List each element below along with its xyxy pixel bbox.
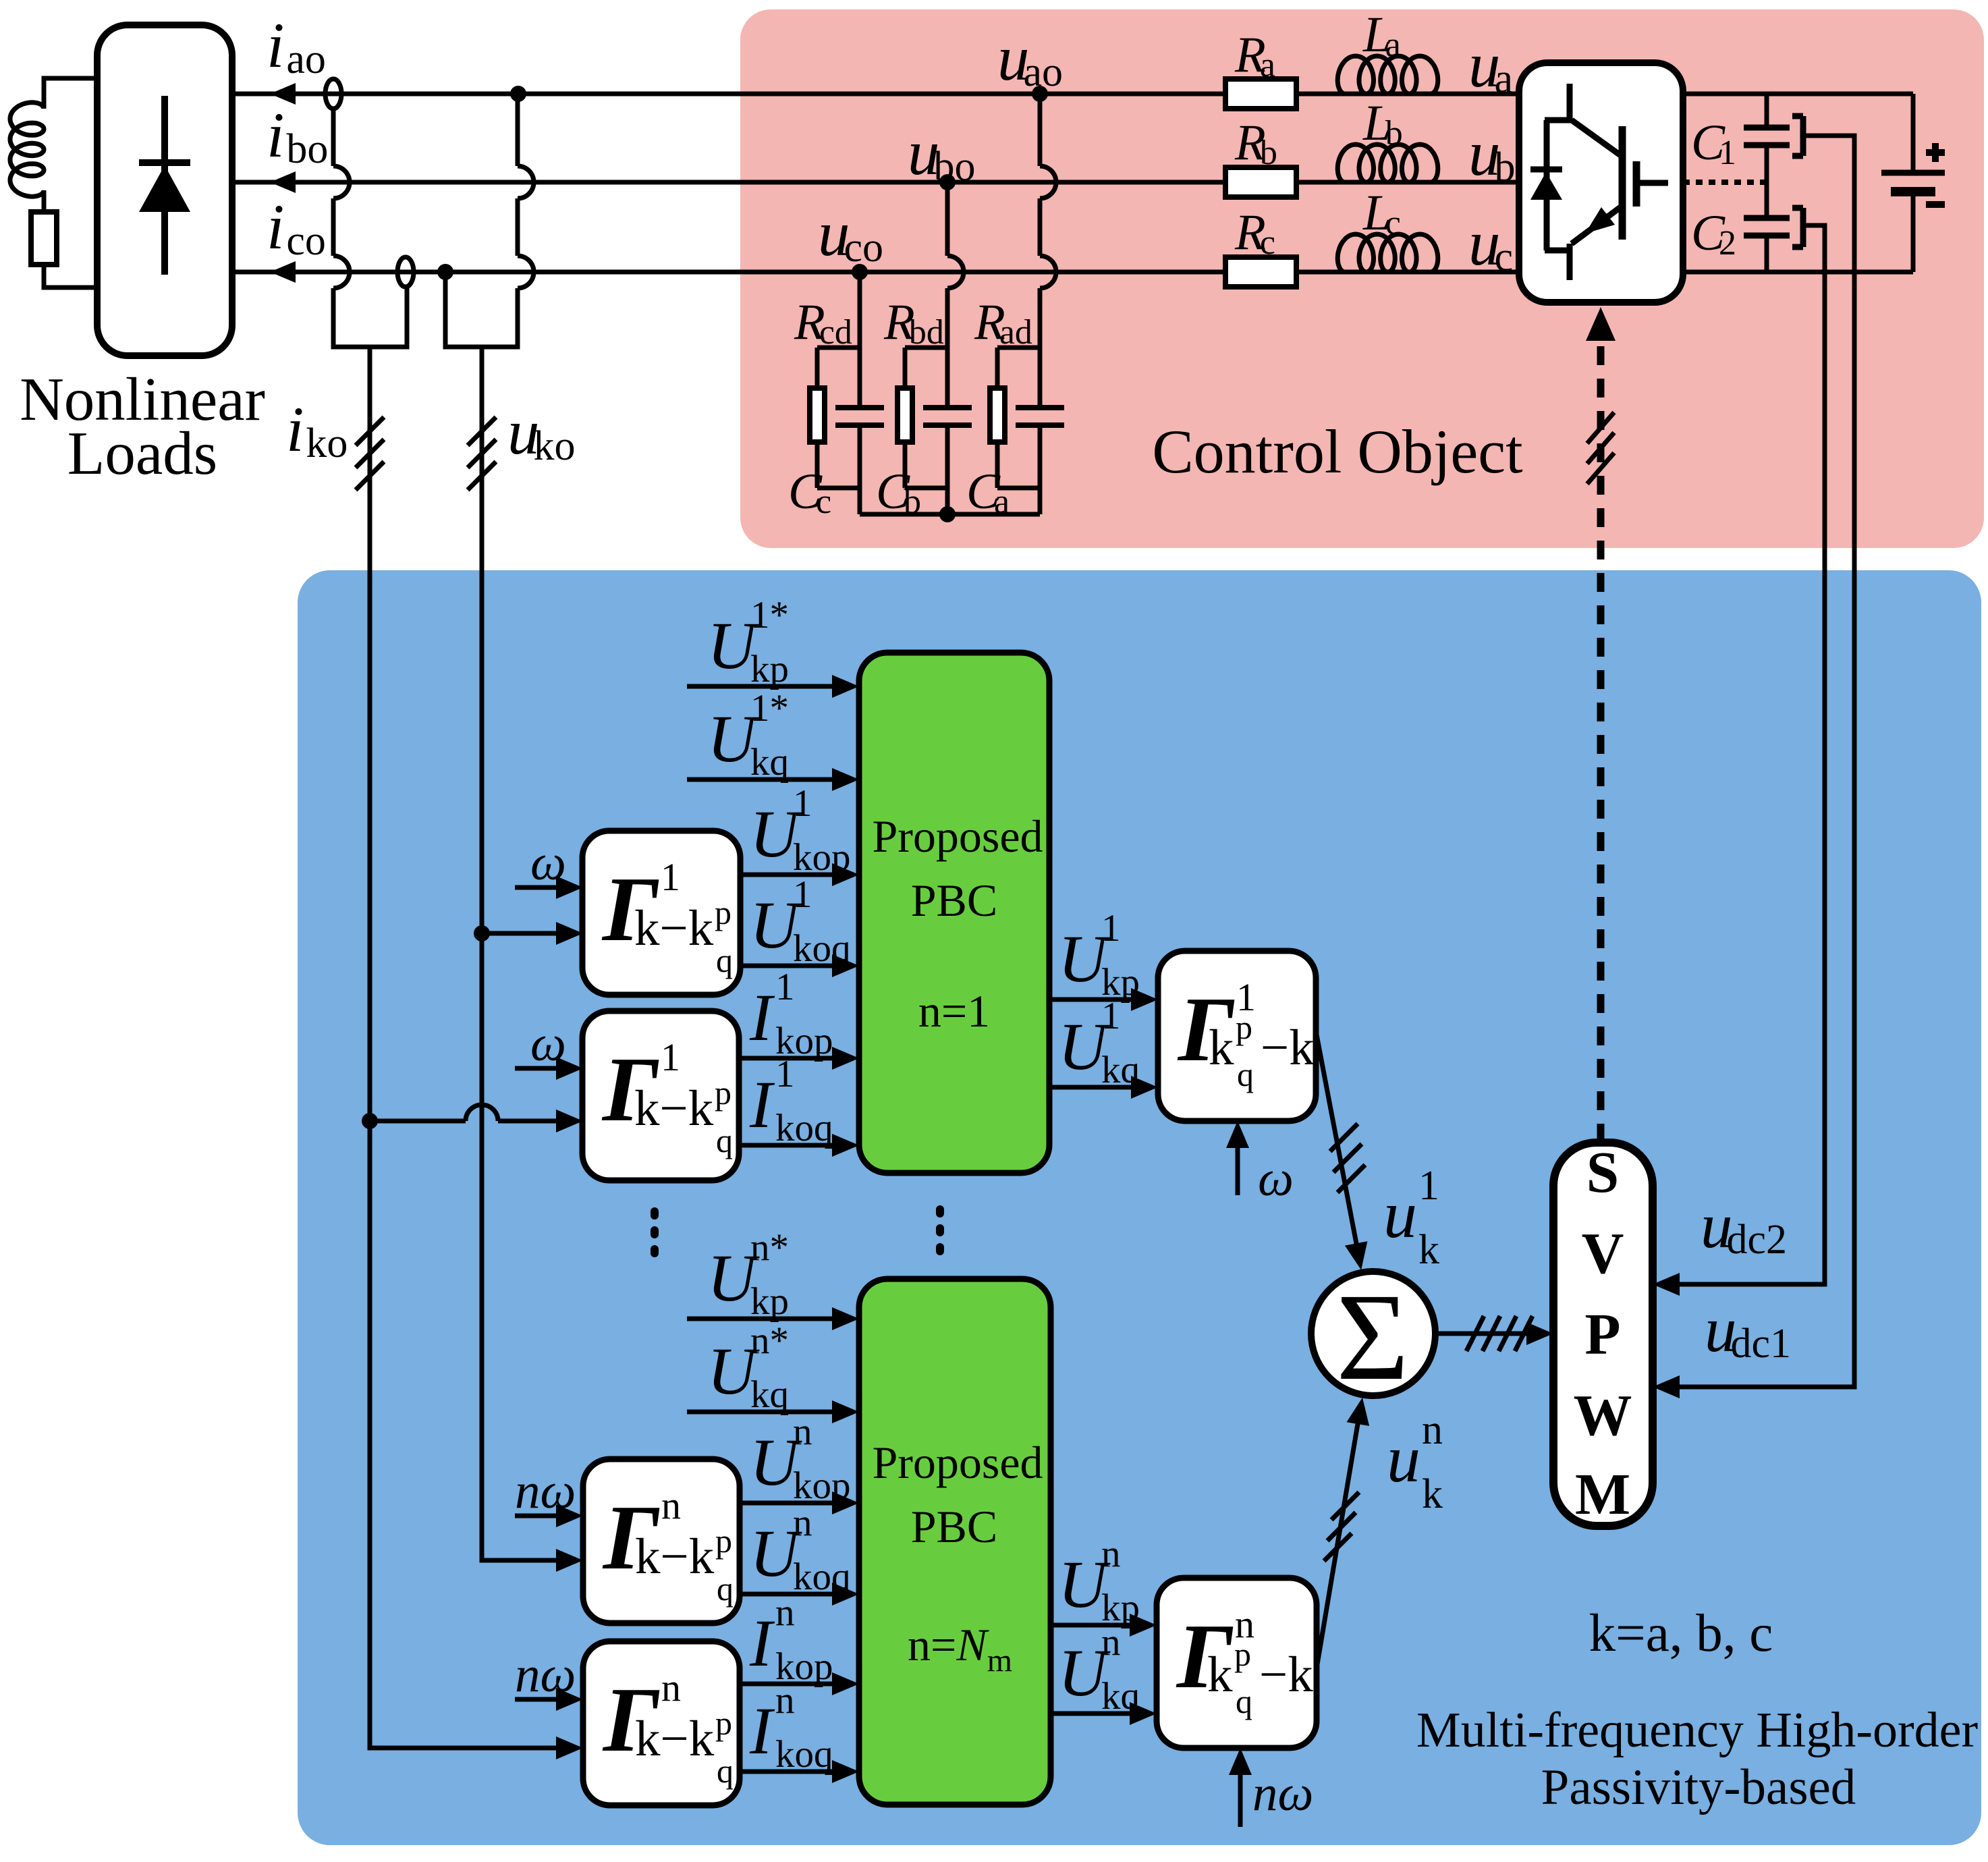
svg-text:ω: ω xyxy=(530,835,566,891)
svg-text:W: W xyxy=(1574,1382,1632,1448)
svg-text:1: 1 xyxy=(793,782,812,825)
svg-text:Control Object: Control Object xyxy=(1152,417,1523,486)
svg-text:koq: koq xyxy=(775,1107,833,1149)
svg-text:n: n xyxy=(775,1591,795,1634)
svg-text:PBC: PBC xyxy=(911,875,998,926)
svg-text:k: k xyxy=(1422,1471,1443,1517)
svg-text:u: u xyxy=(1387,1421,1420,1496)
svg-text:k: k xyxy=(1209,1020,1234,1076)
svg-text:k−k: k−k xyxy=(635,1711,715,1767)
svg-text:q: q xyxy=(716,941,733,979)
svg-text:1*: 1* xyxy=(750,594,789,636)
svg-text:I: I xyxy=(749,1067,775,1142)
svg-text:I: I xyxy=(749,1693,775,1768)
svg-text:p: p xyxy=(1234,1635,1251,1673)
svg-text:M: M xyxy=(1575,1461,1630,1527)
svg-text:kp: kp xyxy=(750,1280,789,1323)
svg-text:1: 1 xyxy=(1418,1163,1439,1209)
svg-text:k−k: k−k xyxy=(635,1529,715,1585)
svg-text:S: S xyxy=(1586,1139,1619,1205)
svg-text:k: k xyxy=(1207,1647,1233,1703)
svg-text:1: 1 xyxy=(1101,995,1121,1037)
svg-text:nω: nω xyxy=(1252,1765,1313,1822)
svg-text:ω: ω xyxy=(530,1016,566,1072)
svg-text:n: n xyxy=(1101,1621,1121,1664)
svg-text:I: I xyxy=(749,980,775,1055)
svg-text:Σ: Σ xyxy=(1336,1268,1409,1406)
svg-text:1*: 1* xyxy=(750,687,789,730)
svg-text:I: I xyxy=(749,1606,775,1680)
svg-text:kq: kq xyxy=(1101,1675,1140,1718)
svg-text:kq: kq xyxy=(750,741,789,784)
svg-text:q: q xyxy=(716,1122,733,1159)
svg-text:p: p xyxy=(715,1074,731,1112)
svg-text:n: n xyxy=(1422,1407,1443,1453)
svg-text:k=a, b, c: k=a, b, c xyxy=(1589,1604,1773,1663)
svg-text:p: p xyxy=(715,1522,732,1560)
svg-text:−k: −k xyxy=(1261,1020,1315,1076)
svg-text:kp: kp xyxy=(750,648,789,690)
svg-text:koq: koq xyxy=(793,1556,851,1598)
svg-text:q: q xyxy=(717,1752,734,1790)
svg-text:kq: kq xyxy=(750,1373,789,1416)
svg-text:PBC: PBC xyxy=(911,1501,998,1552)
svg-text:Loads: Loads xyxy=(67,419,217,487)
svg-text:Proposed: Proposed xyxy=(872,811,1043,862)
svg-text:kq: kq xyxy=(1101,1049,1140,1091)
svg-text:n: n xyxy=(1101,1533,1121,1575)
svg-text:n=1: n=1 xyxy=(918,985,990,1037)
svg-text:koq: koq xyxy=(793,927,851,970)
svg-text:n: n xyxy=(775,1679,795,1722)
svg-text:1: 1 xyxy=(661,1035,680,1079)
svg-text:1: 1 xyxy=(1101,907,1121,950)
svg-text:n: n xyxy=(661,1483,681,1527)
svg-text:q: q xyxy=(1236,1682,1252,1720)
svg-text:n: n xyxy=(661,1666,681,1709)
svg-text:k−k: k−k xyxy=(634,1080,714,1137)
svg-text:kop: kop xyxy=(793,836,851,879)
svg-text:u: u xyxy=(1383,1177,1417,1252)
svg-text:koq: koq xyxy=(775,1733,833,1776)
svg-text:n: n xyxy=(793,1502,812,1544)
svg-text:q: q xyxy=(1237,1056,1254,1093)
svg-text:nω: nω xyxy=(515,1463,576,1519)
svg-text:Passivity-based: Passivity-based xyxy=(1541,1759,1856,1815)
svg-text:1: 1 xyxy=(793,873,812,916)
svg-text:P: P xyxy=(1584,1301,1620,1367)
svg-text:n*: n* xyxy=(750,1319,789,1362)
svg-text:q: q xyxy=(717,1570,734,1608)
svg-text:V: V xyxy=(1582,1220,1624,1286)
svg-text:p: p xyxy=(715,1704,732,1742)
svg-text:1: 1 xyxy=(775,966,795,1008)
svg-text:nω: nω xyxy=(515,1647,576,1703)
svg-text:k: k xyxy=(1418,1227,1439,1273)
svg-text:1: 1 xyxy=(661,855,680,899)
svg-text:−k: −k xyxy=(1259,1647,1313,1703)
svg-text:Proposed: Proposed xyxy=(872,1437,1043,1488)
svg-text:ω: ω xyxy=(1258,1151,1294,1207)
svg-text:p: p xyxy=(1236,1008,1252,1046)
svg-text:Multi-frequency High-order: Multi-frequency High-order xyxy=(1416,1703,1978,1758)
svg-text:kop: kop xyxy=(793,1464,851,1507)
svg-text:p: p xyxy=(715,894,731,931)
svg-text:1: 1 xyxy=(775,1053,795,1095)
svg-text:n: n xyxy=(793,1411,812,1453)
svg-text:k−k: k−k xyxy=(634,900,714,956)
svg-text:n*: n* xyxy=(750,1226,789,1269)
